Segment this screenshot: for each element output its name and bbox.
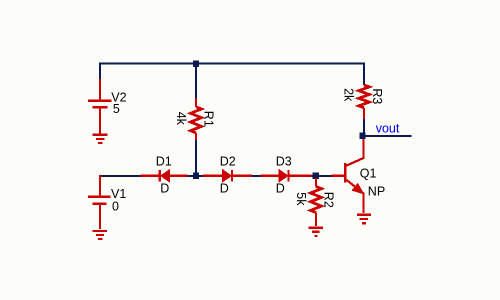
svg-text:R2: R2 [321,192,335,208]
node junction R2 [313,173,319,179]
node junction bottom R1 [193,173,199,179]
diode D2 [203,170,252,182]
voltage source V1 [88,175,111,229]
wire R3 bottom [363,119,365,136]
wire top rail [100,63,364,65]
svg-text:R1: R1 [202,111,216,127]
voltage source V2 [88,79,112,134]
wire R1 top [195,64,197,98]
ground V2 [93,135,108,143]
transistor Q1 [332,139,364,213]
wire mid segment D2-D3 [252,175,261,177]
resistor R3 [359,84,370,119]
svg-text:R3: R3 [370,88,384,104]
svg-text:vout: vout [376,121,400,135]
svg-text:0: 0 [112,199,119,213]
svg-text:2k: 2k [341,88,355,102]
svg-text:D2: D2 [220,155,236,169]
ground Q1 [357,215,371,224]
node junction vout [359,133,365,139]
ground R2 [309,228,323,236]
svg-text:5: 5 [113,102,120,116]
wire bottom rail left [100,175,140,177]
wire V2 top stub [99,63,101,80]
node junction top R1 [193,61,199,67]
svg-text:D: D [276,182,285,196]
wire R1 bottom [195,140,197,177]
svg-text:D: D [160,182,169,196]
svg-text:D3: D3 [276,155,292,169]
wire segment D1-D2 junction [188,175,203,177]
svg-text:4k: 4k [174,112,188,126]
resistor R1 [191,98,202,140]
svg-text:Q1: Q1 [360,167,377,181]
svg-text:NP: NP [368,185,385,199]
ground V1 [93,231,108,239]
wire vout [362,135,412,137]
svg-text:5k: 5k [294,192,308,206]
diode D1 [140,170,187,182]
wire R3 top [363,63,365,85]
wire R2 junction to Q1 base [311,175,331,177]
svg-text:D: D [220,182,229,196]
svg-text:D1: D1 [156,155,172,169]
resistor R2 [311,178,322,226]
diode D3 [261,170,312,182]
